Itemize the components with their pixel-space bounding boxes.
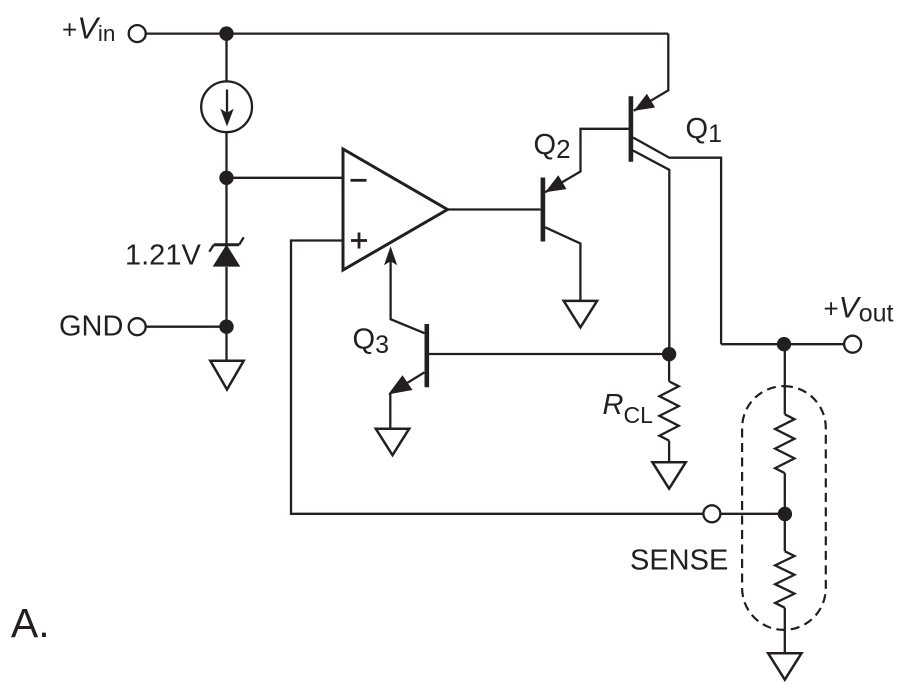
junction dot at +Vout [777,337,791,351]
junction dot at +Vin rail [219,26,233,40]
op-amp U1 [343,149,448,270]
transistor Q1 [631,34,721,355]
zener diode D1 (1.21V reference) [209,237,243,266]
resistor RCL [659,381,678,440]
dashed outline around external feedback divider [742,386,826,630]
ground (below Q2 collector) [564,301,597,328]
wire current source to minus-input junction [225,132,227,178]
terminal GND [129,318,146,335]
svg-text:Q2: Q2 [534,129,571,164]
resistor R1 (divider top) [775,414,794,473]
ground (below GND) [210,361,243,390]
junction dot at RCL top [662,347,676,361]
wire +Vout junction down to divider [784,344,786,414]
terminal +Vout [844,336,861,353]
wire R1 to SENSE junction [784,473,786,514]
wire junction to op-amp inverting input [227,177,344,179]
wire GND terminal to junction [146,326,227,328]
wire zener anode to GND junction [225,267,227,327]
resistor R2 (divider bottom) [775,551,794,607]
wire +Vin junction down to current source [225,34,227,82]
wire SENSE junction to R2 [784,514,786,552]
junction dot at GND [219,320,233,334]
transistor Q3 [384,246,669,428]
current source I1 [201,81,252,132]
wire SENSE terminal to junction [720,513,784,515]
ground (below divider) [768,653,801,680]
wire op-amp noninverting input to SENSE line [291,241,703,514]
wire Q1 collector to +Vout terminal [721,343,844,345]
ground (below RCL) [652,462,685,489]
wire R2 to ground [784,608,786,654]
svg-text:RCL: RCL [603,389,654,428]
ground (below Q3 emitter) [376,429,409,456]
svg-text:+Vout: +Vout [824,292,894,328]
svg-text:1.21V: 1.21V [125,240,201,272]
wire junction to RCL [668,354,670,381]
junction dot at zener / op-amp minus input [219,171,233,185]
wire op-amp output to Q2 base [448,208,541,210]
svg-text:SENSE: SENSE [630,544,728,576]
terminal SENSE [703,505,720,522]
svg-text:+Vin: +Vin [62,11,115,47]
wire junction down to zener cathode [225,178,227,245]
wire top rail from +Vin terminal to Q1 emitter corner [146,32,669,34]
wire GND junction down to ground [225,327,227,361]
transistor Q2 [543,129,629,301]
svg-text:Q1: Q1 [686,113,722,148]
svg-text:Q3: Q3 [353,323,389,359]
svg-text:GND: GND [59,310,123,342]
wire RCL to ground [668,441,670,463]
junction dot at SENSE [778,507,792,521]
terminal +Vin [129,25,146,42]
svg-text:A.: A. [11,600,50,646]
